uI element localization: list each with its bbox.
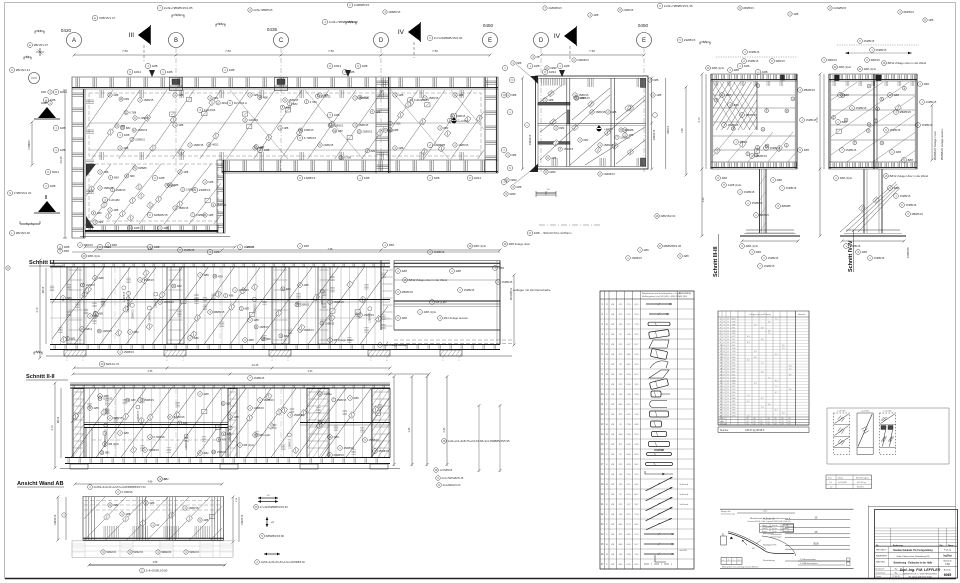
svg-text:6,7Ø8: 6,7Ø8 — [129, 112, 136, 115]
svg-text:6Ø#2: 6Ø#2 — [549, 170, 556, 174]
svg-text:#Ø8: #Ø8 — [41, 90, 46, 94]
svg-text:5Ø#2/15: 5Ø#2/15 — [161, 551, 171, 554]
svg-text:1x32+2x4+9x8x75+2x12/9.68+3x3.: 1x32+2x4+9x8x75+2x12/9.68+3x3.25Ø8Ø5/15/… — [448, 439, 510, 443]
svg-text:6Ø12: 6Ø12 — [60, 90, 68, 94]
svg-text:4Ø8: 4Ø8 — [924, 82, 930, 86]
svg-text:47+43/35Ø8Ø5/15/2.60: 47+43/35Ø8Ø5/15/2.60 — [260, 505, 289, 509]
svg-text:15Ø8/15: 15Ø8/15 — [124, 350, 135, 354]
svg-text:Ø8Ø5/15: Ø8Ø5/15 — [746, 113, 758, 117]
svg-text:BAUTEIL:: BAUTEIL: — [876, 561, 886, 564]
svg-text:2xØ8Ø5/15: 2xØ8Ø5/15 — [548, 6, 562, 10]
svg-text:6,7Ø8/15: 6,7Ø8/15 — [174, 415, 186, 419]
svg-text:6Ø12: 6Ø12 — [52, 170, 60, 174]
svg-text:Ø8Ø5/15: Ø8Ø5/15 — [900, 110, 912, 114]
svg-text:3.4: 3.4 — [789, 366, 792, 368]
svg-text:4Ø8: 4Ø8 — [393, 128, 398, 132]
svg-text:15Ø8/15: 15Ø8/15 — [632, 256, 643, 260]
svg-text:66: 66 — [761, 424, 763, 426]
svg-text:PROJEKT:: PROJEKT: — [876, 550, 887, 552]
svg-text:3x4+8Ø12/3.20: 3x4+8Ø12/3.20 — [443, 483, 461, 487]
svg-text:#Ø8: #Ø8 — [99, 276, 105, 280]
svg-text:Bewehrung - Einbauten in der H: Bewehrung - Einbauten in der Halle — [894, 562, 933, 565]
svg-text:4Ø8: 4Ø8 — [98, 312, 103, 315]
svg-text:N: N — [438, 484, 440, 487]
svg-text:13Ø#8/15: 13Ø#8/15 — [186, 439, 188, 450]
svg-text:#Ø8/15: #Ø8/15 — [114, 416, 123, 420]
svg-text:13Ø#8/15: 13Ø#8/15 — [289, 438, 291, 449]
svg-text:6,7Ø8: 6,7Ø8 — [344, 157, 351, 160]
svg-text:Blatt-Nr.: Blatt-Nr. — [944, 569, 952, 572]
svg-text:15Ø8/15: 15Ø8/15 — [458, 143, 469, 147]
svg-text:1xD1Ø2: 1xD1Ø2 — [109, 198, 120, 202]
svg-text:Ø8/15/1.44: Ø8/15/1.44 — [16, 68, 31, 72]
svg-text:Gew.(kg): Gew.(kg) — [720, 424, 728, 426]
svg-text:86: 86 — [782, 418, 784, 420]
svg-text:3.3: 3.3 — [754, 383, 757, 385]
svg-text:2x39+7Ø8Ø5/15/1.85: 2x39+7Ø8Ø5/15/1.85 — [164, 6, 193, 10]
svg-text:8Ø2: 8Ø2 — [371, 150, 376, 153]
svg-text:4Ø8: 4Ø8 — [120, 125, 125, 128]
svg-text:7.50: 7.50 — [122, 49, 128, 53]
svg-text:28: 28 — [782, 424, 784, 426]
svg-text:7.50: 7.50 — [432, 49, 438, 53]
svg-text:4Ø8: 4Ø8 — [304, 283, 310, 287]
svg-text:Neubau Gebäude 70c Fertigstell: Neubau Gebäude 70c Fertigstellung — [893, 549, 933, 552]
svg-text:BAHNHOFSTR. 17 4630 HEIDELBER: BAHNHOFSTR. 17 4630 HEIDELBERG — [903, 572, 937, 575]
svg-text:Ø8Ø5/15: Ø8Ø5/15 — [804, 88, 816, 92]
svg-text:8Ø2: 8Ø2 — [113, 503, 118, 507]
svg-text:4Ø8: 4Ø8 — [170, 184, 175, 187]
svg-text:8Ø2: 8Ø2 — [266, 338, 271, 341]
svg-text:6.2: 6.2 — [761, 372, 764, 374]
svg-text:4Ø8: 4Ø8 — [564, 64, 570, 68]
svg-text:4Ø8: 4Ø8 — [334, 113, 340, 117]
svg-text:Längen (m) je Ø (mm): Längen (m) je Ø (mm) — [749, 314, 771, 316]
svg-text:15Ø8/15: 15Ø8/15 — [334, 300, 345, 304]
svg-text:4Ø8 (1)dx: 4Ø8 (1)dx — [746, 244, 759, 248]
svg-text:4Ø8: 4Ø8 — [60, 126, 66, 130]
svg-text:4Ø8: 4Ø8 — [203, 518, 208, 522]
svg-text:15Ø8/15: 15Ø8/15 — [752, 201, 763, 205]
svg-text:0450: 0450 — [638, 23, 649, 28]
svg-text:4Ø8... /360.00 lfdm 4x/50cm: 4Ø8... /360.00 lfdm 4x/50cm — [534, 231, 572, 235]
svg-text:4Ø8: 4Ø8 — [159, 176, 165, 180]
svg-text:4Ø8: 4Ø8 — [222, 439, 227, 442]
svg-text:15Ø8/15: 15Ø8/15 — [850, 244, 861, 248]
svg-text:8Ø2: 8Ø2 — [559, 126, 564, 130]
svg-text:15Ø8/15: 15Ø8/15 — [906, 203, 917, 207]
svg-text:a: a — [723, 560, 724, 562]
svg-text:b: b — [728, 560, 729, 562]
svg-text:Ø8/Ø8/20 Zulage aussen: Ø8/Ø8/20 Zulage aussen — [940, 128, 944, 160]
svg-text:13Ø#8/15: 13Ø#8/15 — [124, 291, 126, 302]
svg-text:15Ø8/15: 15Ø8/15 — [186, 189, 196, 192]
svg-text:4Ø8: 4Ø8 — [323, 421, 328, 424]
svg-text:15Ø8/15: 15Ø8/15 — [103, 398, 113, 401]
svg-text:15Ø8/15: 15Ø8/15 — [254, 376, 265, 380]
svg-text:23Ø8/15: 23Ø8/15 — [456, 115, 466, 118]
svg-text:73: 73 — [775, 421, 777, 423]
svg-text:Ø10/Ø/7a: Ø10/Ø/7a — [509, 287, 513, 300]
svg-text:4Ø8 (1)dx: 4Ø8 (1)dx — [840, 176, 853, 180]
svg-text:4Ø8: 4Ø8 — [458, 93, 463, 97]
svg-text:4Ø8: 4Ø8 — [762, 70, 768, 74]
svg-text:#Ø8/15: #Ø8/15 — [760, 213, 770, 217]
svg-text:4Ø8: 4Ø8 — [204, 392, 210, 396]
svg-text:52: 52 — [768, 421, 770, 423]
svg-text:15Ø8/15: 15Ø8/15 — [288, 98, 299, 102]
svg-text:4Ø12: 4Ø12 — [134, 70, 142, 74]
svg-text:6,7Ø8: 6,7Ø8 — [394, 122, 401, 125]
svg-text:1.0 Aussenseiten: 1.0 Aussenseiten — [800, 558, 817, 561]
svg-text:6Ø8 (1)dx: 6Ø8 (1)dx — [474, 244, 487, 248]
svg-text:8Ø2: 8Ø2 — [183, 422, 188, 425]
svg-text:4Ø8: 4Ø8 — [60, 148, 66, 152]
svg-text:4Ø8: 4Ø8 — [50, 184, 56, 188]
svg-text:4Ø8: 4Ø8 — [154, 245, 160, 249]
svg-text:16Ø8/15: 16Ø8/15 — [244, 245, 255, 249]
svg-text:4Ø8: 4Ø8 — [793, 12, 798, 16]
svg-text:15Ø8/15: 15Ø8/15 — [595, 110, 606, 114]
svg-text:15Ø8/15: 15Ø8/15 — [564, 148, 574, 151]
svg-text:Ø8Ø5/15: Ø8Ø5/15 — [402, 290, 414, 294]
svg-text:Bemerkung: Bemerkung — [679, 292, 691, 295]
svg-text:S=Kranb.: S=Kranb. — [680, 503, 690, 506]
svg-text:E: E — [642, 38, 646, 44]
svg-text:4Ø12: 4Ø12 — [221, 102, 228, 105]
svg-text:Stahlgüte B St: Stahlgüte B St — [763, 544, 777, 547]
svg-text:17Ø8/15/1.20: 17Ø8/15/1.20 — [14, 191, 32, 195]
svg-text:4Ø8: 4Ø8 — [338, 130, 343, 133]
svg-text:15Ø8/15: 15Ø8/15 — [321, 95, 331, 98]
svg-text:#Ø8/15: #Ø8/15 — [84, 243, 94, 247]
svg-text:4x39+7Ø8Ø5/15/1.60: 4x39+7Ø8Ø5/15/1.60 — [329, 20, 358, 24]
svg-text:1xD3Ø4: 1xD3Ø4 — [248, 118, 258, 122]
svg-text:5Ø8: 5Ø8 — [756, 250, 762, 254]
svg-text:7.0 ds: 7.0 ds — [783, 525, 788, 527]
svg-text:L=4.50m: L=4.50m — [861, 411, 870, 413]
svg-text:4Ø8: 4Ø8 — [263, 97, 268, 100]
svg-text:Ø8 L=: Ø8 L= — [720, 418, 725, 420]
svg-text:15Ø8/15: 15Ø8/15 — [770, 146, 781, 150]
svg-text:2.35: 2.35 — [148, 248, 153, 251]
svg-text:15Ø8/15: 15Ø8/15 — [144, 278, 155, 282]
svg-text:2.70: 2.70 — [35, 307, 39, 313]
svg-text:5000: 5000 — [813, 543, 819, 546]
svg-text:6Ø8: 6Ø8 — [208, 180, 213, 184]
svg-text:4Ø8 Zulage oben: 4Ø8 Zulage oben — [509, 242, 531, 246]
svg-text:23Ø8/15: 23Ø8/15 — [334, 124, 344, 127]
svg-text:6,7Ø8/15: 6,7Ø8/15 — [154, 435, 166, 439]
svg-text:90: 90 — [789, 424, 791, 426]
svg-text:80: 80 — [754, 418, 756, 420]
svg-text:4Ø12: 4Ø12 — [453, 120, 460, 123]
svg-text:Summe:: Summe: — [720, 429, 729, 432]
svg-text:8Ø2: 8Ø2 — [213, 96, 218, 100]
svg-text:4Ø8: 4Ø8 — [656, 93, 661, 97]
svg-text:D: D — [539, 38, 544, 44]
svg-text:4Ø8: 4Ø8 — [125, 512, 130, 516]
svg-text:6065: 6065 — [944, 573, 952, 577]
svg-text:15Ø8/15: 15Ø8/15 — [620, 136, 630, 139]
svg-text:1.45: 1.45 — [408, 427, 411, 432]
svg-text:2.3: 2.3 — [761, 407, 764, 409]
svg-text:7.1: 7.1 — [775, 319, 778, 321]
svg-text:25Ø8/15: 25Ø8/15 — [748, 59, 759, 63]
svg-text:Ing/Stat: Ing/Stat — [943, 555, 952, 558]
svg-text:15Ø8/15: 15Ø8/15 — [178, 206, 189, 210]
svg-text:4Ø8: 4Ø8 — [376, 111, 381, 114]
svg-text:0420: 0420 — [61, 28, 72, 33]
svg-text:4Ø8: 4Ø8 — [894, 93, 900, 97]
svg-text:8Ø2: 8Ø2 — [105, 452, 110, 455]
svg-text:15Ø8/15: 15Ø8/15 — [259, 326, 269, 329]
svg-text:Änderung: Änderung — [893, 544, 904, 547]
svg-text:15Ø8/15: 15Ø8/15 — [464, 288, 475, 292]
svg-text:d=7ds: d=7ds — [772, 528, 777, 530]
svg-text:Ø8 Zulage innen: Ø8 Zulage innen — [334, 338, 354, 342]
svg-text:1xD3/D4: 1xD3/D4 — [204, 108, 216, 112]
svg-text:4Ø8: 4Ø8 — [684, 254, 690, 258]
svg-text:Dipl.-Ing. P.M. LEFFLER: Dipl.-Ing. P.M. LEFFLER — [900, 568, 941, 572]
svg-text:#Ø8: #Ø8 — [511, 153, 516, 157]
svg-text:1.5: 1.5 — [768, 333, 771, 335]
svg-text:Name: Name — [948, 545, 955, 547]
svg-text:#Ø8: #Ø8 — [112, 243, 118, 247]
svg-text:69: 69 — [789, 421, 791, 423]
svg-text:15Ø8/15: 15Ø8/15 — [217, 451, 227, 454]
svg-text:Schnitt II-II: Schnitt II-II — [26, 374, 55, 380]
svg-text:4Ø8: 4Ø8 — [534, 64, 540, 68]
svg-text:6Ø8Ø5/15: 6Ø8Ø5/15 — [154, 213, 168, 217]
svg-text:15Ø8/15: 15Ø8/15 — [144, 398, 155, 402]
svg-text:c: c — [733, 560, 734, 562]
svg-text:8Ø2: 8Ø2 — [124, 98, 129, 101]
svg-text:30: 30 — [768, 418, 770, 420]
svg-text:13Ø#8/15: 13Ø#8/15 — [128, 302, 130, 313]
svg-text:15Ø8/15: 15Ø8/15 — [874, 256, 885, 260]
svg-text:Nr.: Nr. — [876, 544, 879, 547]
svg-text:6.7: 6.7 — [775, 392, 778, 394]
svg-text:Projekt Nr.: Projekt Nr. — [763, 526, 773, 529]
svg-text:4Ø8: 4Ø8 — [551, 156, 556, 160]
svg-text:Auftrags Nr.: Auftrags Nr. — [763, 532, 774, 535]
svg-text:Gezeichnet: Gezeichnet — [876, 571, 886, 574]
svg-text:BAUHERR:: BAUHERR: — [876, 555, 888, 558]
svg-text:4Ø12: 4Ø12 — [474, 176, 482, 180]
svg-text:2x203+2x43+53+53+12x4+30/5Ø8/5: 2x203+2x43+53+53+12x4+30/5Ø8/5.40 — [261, 561, 306, 564]
svg-text:Bewehrungsst.: Bewehrungsst. — [856, 477, 870, 480]
svg-text:25Ø8/15: 25Ø8/15 — [876, 48, 887, 52]
svg-text:44: 44 — [747, 421, 749, 423]
svg-text:IV: IV — [554, 33, 561, 40]
svg-text:4Ø8: 4Ø8 — [229, 68, 235, 72]
svg-text:9.2: 9.2 — [768, 322, 771, 324]
svg-text:4Ø8: 4Ø8 — [548, 98, 553, 102]
svg-text:4Ø8: 4Ø8 — [103, 170, 108, 174]
svg-text:23Ø8/15: 23Ø8/15 — [304, 129, 314, 132]
svg-text:8Ø2: 8Ø2 — [130, 175, 135, 178]
svg-text:2+8+5/5Ø12/9.80: 2+8+5/5Ø12/9.80 — [146, 569, 168, 573]
svg-text:4Ø8: 4Ø8 — [354, 396, 360, 400]
svg-text:4Ø8: 4Ø8 — [456, 269, 462, 273]
svg-text:4Ø8: 4Ø8 — [152, 64, 158, 68]
svg-text:Ø8 (1)dx: Ø8 (1)dx — [244, 443, 255, 447]
svg-text:2xØ8Ø5/15: 2xØ8Ø5/15 — [354, 3, 370, 7]
svg-text:23Ø8/15: 23Ø8/15 — [684, 38, 696, 42]
svg-text:8Ø12/L=5: 8Ø12/L=5 — [106, 362, 120, 366]
svg-text:23Ø#8/15: 23Ø#8/15 — [603, 172, 615, 176]
svg-text:3.2: 3.2 — [782, 413, 785, 415]
svg-text:Pos.: Pos. — [828, 478, 832, 480]
svg-text:2.1: 2.1 — [768, 377, 771, 379]
svg-text:Ø8/15/1.07: Ø8/15/1.07 — [34, 43, 49, 47]
svg-text:6.9: 6.9 — [789, 374, 792, 376]
svg-text:4.88: 4.88 — [153, 561, 158, 564]
svg-text:7.50: 7.50 — [589, 49, 595, 53]
svg-text:2.45: 2.45 — [443, 427, 446, 432]
svg-text:64: 64 — [768, 424, 770, 426]
svg-text:4Ø8: 4Ø8 — [254, 318, 260, 322]
svg-text:Meßangaben (cm) (Ø) (Ø8) - (Ø4: Meßangaben (cm) (Ø) (Ø8) - (Ø4) Ø8S — [642, 296, 680, 298]
svg-text:1x37Ø8/15: 1x37Ø8/15 — [440, 468, 453, 472]
svg-text:alle Ø8: alle Ø8 — [680, 550, 688, 552]
svg-text:7.48: 7.48 — [328, 248, 333, 251]
svg-text:15Ø8/15: 15Ø8/15 — [900, 194, 911, 198]
svg-text:D2 KD2 A: D2 KD2 A — [234, 101, 247, 105]
svg-text:4Ø8: 4Ø8 — [304, 244, 310, 248]
svg-text:8Ø12 Zulage oben in die Wand: 8Ø12 Zulage oben in die Wand — [409, 278, 448, 282]
svg-text:15Ø8/15: 15Ø8/15 — [358, 123, 369, 127]
svg-text:38.98 S: 38.98 S — [857, 487, 865, 489]
svg-text:4Ø8: 4Ø8 — [249, 338, 255, 342]
svg-text:4Ø8: 4Ø8 — [334, 435, 340, 439]
svg-text:6Ø#2: 6Ø#2 — [510, 178, 517, 182]
svg-text:Ø8Ø5/15: Ø8Ø5/15 — [743, 6, 754, 10]
svg-text:4.9: 4.9 — [782, 345, 785, 347]
svg-text:4Ø12: 4Ø12 — [212, 144, 219, 147]
svg-text:Statische Nr.: Statische Nr. — [763, 518, 775, 521]
svg-text:#Ø8: #Ø8 — [516, 61, 521, 65]
svg-text:4Ø8: 4Ø8 — [260, 146, 265, 149]
svg-text:13Ø#8/15: 13Ø#8/15 — [54, 514, 57, 525]
svg-text:#Ø8: #Ø8 — [511, 93, 516, 97]
svg-text:7.48: 7.48 — [680, 128, 684, 134]
svg-text:Ø8/Ø8/20 Zulage innen: Ø8/Ø8/20 Zulage innen — [933, 130, 937, 160]
svg-text:4Ø12: 4Ø12 — [363, 96, 370, 99]
svg-text:4Ø8: 4Ø8 — [744, 64, 750, 68]
svg-text:15Ø8/15: 15Ø8/15 — [337, 399, 347, 402]
svg-text:23Ø8/15: 23Ø8/15 — [323, 143, 334, 147]
svg-text:13Ø#8/15: 13Ø#8/15 — [156, 297, 158, 308]
svg-text:4Ø8: 4Ø8 — [896, 150, 902, 154]
svg-text:15Ø8/15: 15Ø8/15 — [184, 248, 195, 252]
svg-text:13Ø#8/15: 13Ø#8/15 — [106, 428, 108, 439]
svg-text:13Ø#8/15: 13Ø#8/15 — [149, 311, 151, 322]
svg-text:23Ø8/15: 23Ø8/15 — [623, 8, 634, 12]
svg-text:4Ø8: 4Ø8 — [178, 93, 183, 97]
svg-text:4.33: 4.33 — [308, 370, 313, 373]
svg-text:23Ø8/15: 23Ø8/15 — [135, 138, 145, 141]
svg-text:4Ø8: 4Ø8 — [624, 129, 629, 132]
svg-text:Ø8/15: Ø8/15 — [740, 140, 748, 144]
svg-text:17Ø8/15: 17Ø8/15 — [28, 140, 31, 150]
svg-text:83: 83 — [775, 424, 777, 426]
svg-text:15Ø8/15: 15Ø8/15 — [856, 106, 867, 110]
svg-text:15Ø8/15: 15Ø8/15 — [116, 189, 126, 192]
svg-text:4Ø8: 4Ø8 — [844, 93, 850, 97]
svg-text:13Ø#8/15: 13Ø#8/15 — [254, 303, 256, 314]
svg-text:4Ø8: 4Ø8 — [114, 177, 119, 180]
svg-text:2x39+7Ø8Ø5/15/1.35: 2x39+7Ø8Ø5/15/1.35 — [664, 4, 693, 8]
svg-text:4Ø8: 4Ø8 — [163, 226, 168, 230]
svg-text:4Ø8 (1)dx: 4Ø8 (1)dx — [864, 67, 877, 71]
svg-text:2.70: 2.70 — [50, 425, 54, 431]
svg-text:13Ø#8/15: 13Ø#8/15 — [132, 309, 134, 320]
svg-text:4Ø8: 4Ø8 — [894, 186, 900, 190]
svg-text:4Ø8: 4Ø8 — [349, 70, 355, 74]
svg-text:24: 24 — [782, 421, 784, 423]
svg-text:4Ø8: 4Ø8 — [862, 250, 868, 254]
svg-text:15Ø8/15: 15Ø8/15 — [434, 250, 445, 254]
svg-text:23Ø8/15: 23Ø8/15 — [199, 188, 211, 192]
svg-text:6,7Ø8/15: 6,7Ø8/15 — [304, 136, 317, 140]
svg-text:#Ø8: #Ø8 — [67, 296, 73, 300]
svg-text:2.6: 2.6 — [789, 389, 792, 391]
svg-text:4Ø8: 4Ø8 — [218, 275, 223, 278]
svg-text:4Ø8 (1)dx: 4Ø8 (1)dx — [712, 66, 725, 70]
svg-text:7.2: 7.2 — [761, 363, 764, 365]
svg-text:4Ø8: 4Ø8 — [204, 273, 210, 277]
svg-text:8Ø8Ø5: 8Ø8Ø5 — [138, 166, 147, 170]
svg-text:0435: 0435 — [267, 27, 278, 32]
svg-text:4Ø8: 4Ø8 — [183, 170, 188, 174]
svg-text:4Ø8: 4Ø8 — [124, 431, 130, 435]
svg-text:4Ø8: 4Ø8 — [113, 93, 118, 97]
svg-text:8Ø2: 8Ø2 — [204, 451, 210, 455]
svg-text:2x7x22Ø8Ø5/15/2.00: 2x7x22Ø8Ø5/15/2.00 — [434, 36, 463, 40]
svg-text:4Ø8: 4Ø8 — [402, 269, 408, 273]
svg-text:d: d — [738, 560, 739, 562]
svg-text:Ød: Ød — [752, 548, 755, 550]
svg-text:Durchmessung: Durchmessung — [721, 514, 734, 516]
svg-text:15Ø8/15: 15Ø8/15 — [786, 186, 797, 190]
svg-text:7.50: 7.50 — [225, 49, 231, 53]
svg-text:13Ø8/15: 13Ø8/15 — [86, 284, 96, 287]
svg-text:4Ø8: 4Ø8 — [229, 295, 234, 298]
svg-text:4.3: 4.3 — [747, 336, 750, 338]
svg-text:s.Abb: s.Abb — [783, 527, 788, 530]
svg-text:II: II — [44, 195, 48, 201]
svg-text:8Ø2: 8Ø2 — [286, 106, 291, 109]
svg-text:4Ø12: 4Ø12 — [549, 70, 557, 74]
svg-text:4.35: 4.35 — [148, 370, 153, 373]
svg-text:15Ø8/15: 15Ø8/15 — [728, 123, 739, 127]
svg-text:8Ø8Ø5: 8Ø8Ø5 — [782, 204, 791, 208]
svg-text:+0.00=: +0.00= — [459, 119, 469, 123]
svg-text:15Ø8/15: 15Ø8/15 — [768, 256, 779, 260]
svg-text:4Ø8: 4Ø8 — [124, 133, 130, 137]
svg-text:8Ø12 Zulage Uber in die Wand: 8Ø12 Zulage Uber in die Wand — [890, 174, 929, 178]
svg-text:A: A — [72, 38, 76, 44]
svg-text:6,7Ø8: 6,7Ø8 — [310, 101, 317, 104]
svg-text:6Ø8/15/2.00: 6Ø8/15/2.00 — [661, 214, 676, 218]
svg-text:#Ø8: #Ø8 — [653, 78, 658, 82]
svg-text:Ø8 (1)dx: Ø8 (1)dx — [436, 300, 447, 304]
svg-text:4Ø8: 4Ø8 — [50, 98, 56, 102]
svg-text:4Ø8: 4Ø8 — [178, 123, 183, 127]
svg-text:Dat.: Dat. — [940, 544, 944, 547]
